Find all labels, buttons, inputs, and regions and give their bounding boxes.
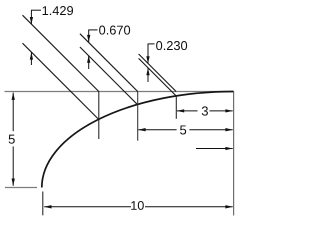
quarter-ellipse curve bbox=[42, 92, 234, 188]
label 10 bbox=[131, 201, 144, 210]
dimension 3 bbox=[177, 110, 233, 112]
horizontal asymptote line (top construction line) bbox=[5, 91, 234, 93]
leader 1.429 bbox=[31, 9, 41, 11]
oblique extension lines callout 0.230 lower bbox=[139, 58, 177, 96]
label 3 bbox=[202, 106, 208, 115]
dimension 5 middle bbox=[138, 129, 232, 131]
dim arrows 0.670 bbox=[88, 30, 90, 69]
vertical extension line at x=7 bbox=[175, 96, 177, 119]
dim arrows 1.429 bbox=[30, 10, 32, 65]
vertical extension line at x=3 bbox=[98, 92, 100, 140]
lone arrow to right line bbox=[196, 148, 233, 150]
leader 0.230 bbox=[148, 43, 155, 45]
oblique extension lines callout 1.429 upper bbox=[23, 15, 99, 91]
vertical extension line at x=5 bbox=[137, 92, 139, 141]
label 1.429 bbox=[43, 6, 73, 15]
oblique extension lines callout 0.670 lower bbox=[80, 47, 138, 105]
dimension 10 bbox=[44, 206, 233, 208]
right vertical construction line bbox=[233, 92, 235, 216]
label 5 left bbox=[9, 135, 15, 144]
dim arrows 0.230 bbox=[147, 44, 149, 82]
bottom-left short construction line bbox=[5, 187, 37, 189]
label 0.670 bbox=[99, 26, 130, 35]
label 0.230 bbox=[156, 41, 187, 50]
oblique extension lines callout 1.429 lower bbox=[23, 43, 99, 119]
oblique extension lines callout 0.230 upper bbox=[139, 54, 177, 92]
extension line for 10 dim at curve start bbox=[42, 192, 44, 216]
dimension 5 vertical left bbox=[12, 93, 14, 186]
leader 0.670 bbox=[88, 29, 97, 31]
oblique extension lines callout 0.670 upper bbox=[80, 34, 138, 92]
label 5 middle bbox=[180, 125, 186, 134]
